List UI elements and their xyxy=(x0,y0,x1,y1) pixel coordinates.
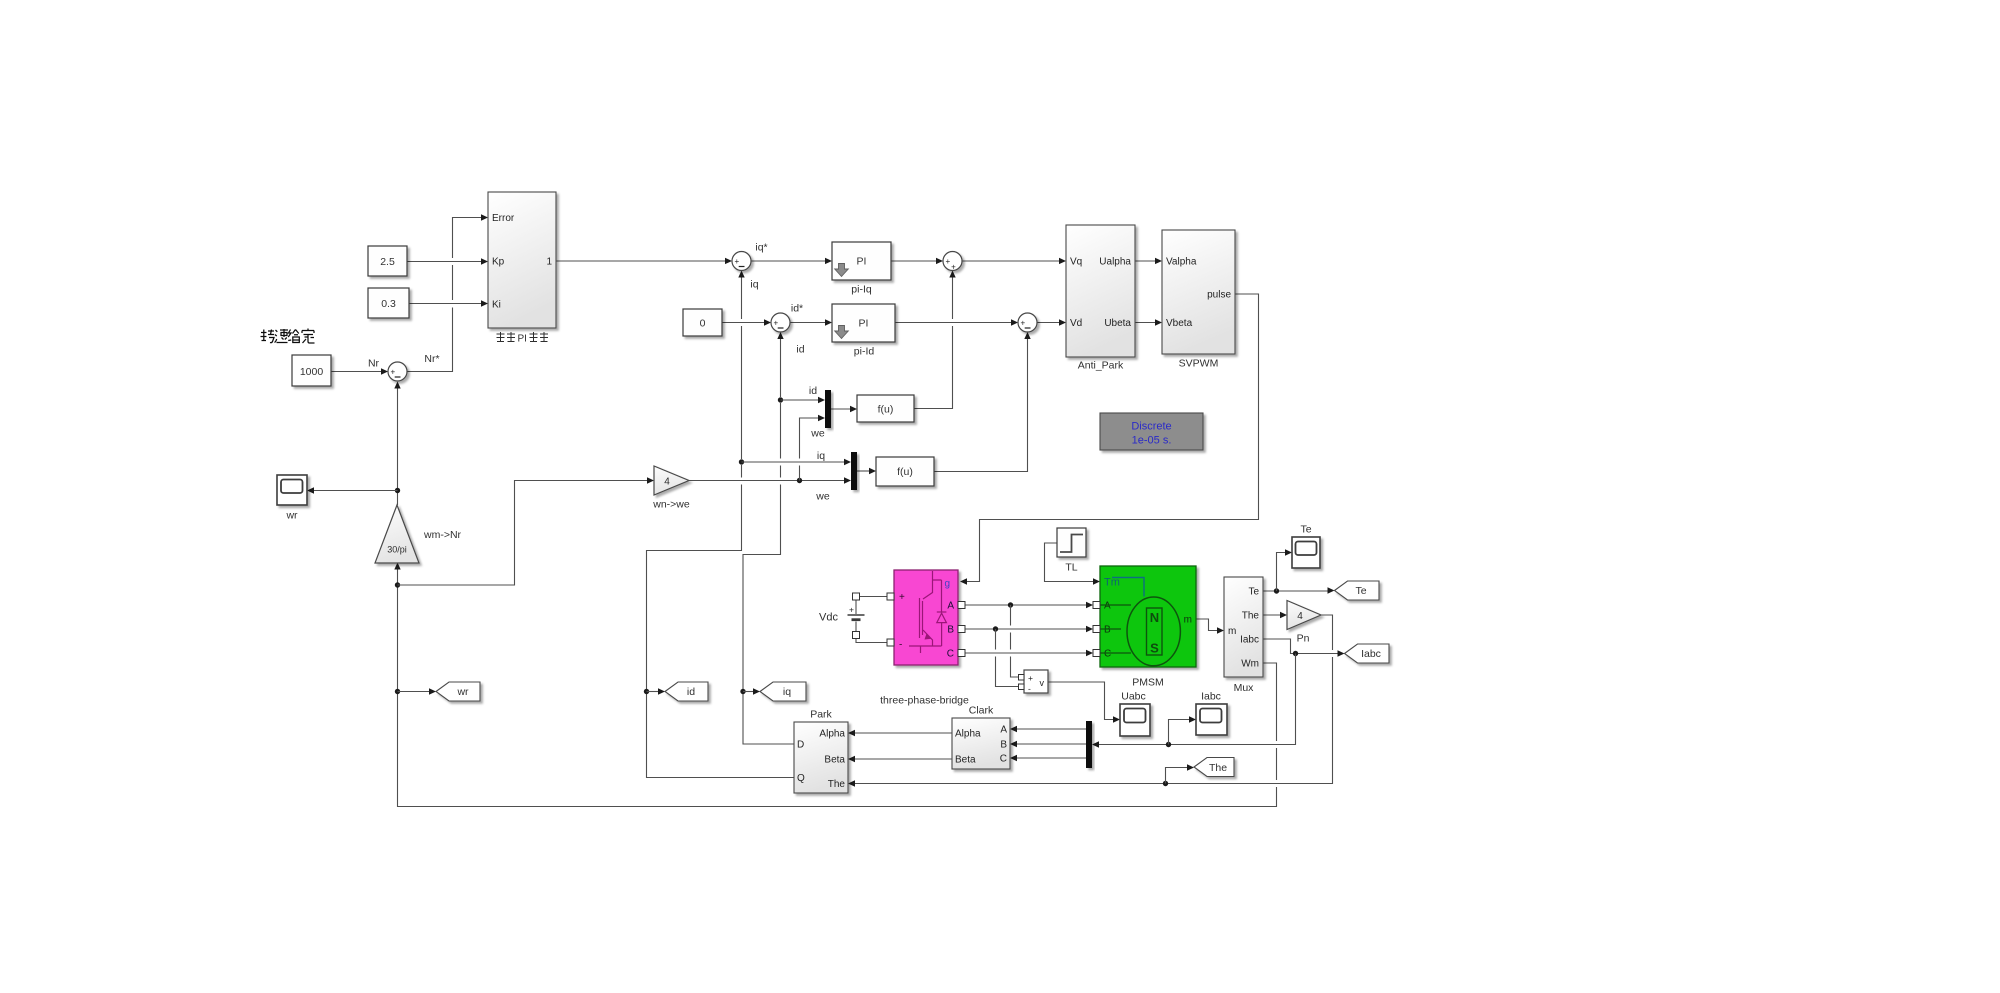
svg-text:pulse: pulse xyxy=(1207,290,1231,301)
wire demux out B to Clark B xyxy=(1010,741,1086,747)
pi-Iq PI controller block xyxy=(832,242,891,280)
svg-text:f(u): f(u) xyxy=(897,466,913,478)
svg-text:D: D xyxy=(797,740,804,751)
wire constant 2.5 to Kp xyxy=(407,258,488,264)
svg-text:+: + xyxy=(1020,318,1025,327)
junction voltage measurement minus xyxy=(993,626,998,631)
junction Iabc down branch xyxy=(1293,651,1298,656)
wire v output to Uabc scope xyxy=(1048,682,1120,723)
wire B phase down to voltage measurement minus xyxy=(996,629,1019,687)
svg-text:Te: Te xyxy=(1355,585,1366,597)
label fuzzy PI module chinese xyxy=(497,332,516,342)
svg-text:C: C xyxy=(1000,754,1007,765)
powergui Discrete block xyxy=(1100,413,1203,450)
svg-text:wm->Nr: wm->Nr xyxy=(423,529,462,541)
label Nr xyxy=(368,358,380,370)
svg-text:Nr: Nr xyxy=(368,358,380,370)
junction Iabc scope branch xyxy=(1166,742,1171,747)
wire net iq : Park Q up to iq sum minus input xyxy=(647,271,795,778)
voltage measurement block xyxy=(1024,670,1048,694)
svg-text:iq*: iq* xyxy=(755,242,767,254)
svg-text:PI: PI xyxy=(518,334,527,345)
goto tag Te xyxy=(1335,581,1380,600)
svg-text:The: The xyxy=(1209,762,1227,774)
demux black bar xyxy=(1086,721,1092,768)
svg-text:PMSM: PMSM xyxy=(1132,677,1164,689)
label Park xyxy=(810,709,832,721)
constant block 1000 xyxy=(292,355,331,386)
wire PMSM m to Mux input xyxy=(1196,619,1224,634)
label TL xyxy=(1065,562,1077,574)
svg-text:iq: iq xyxy=(750,279,758,291)
label we at mux2 xyxy=(815,491,830,503)
junction wr scope branch xyxy=(395,488,400,493)
svg-text:Uabc: Uabc xyxy=(1121,691,1146,703)
goto tag Iabc xyxy=(1345,644,1390,663)
wire Mux The output to Pn gain xyxy=(1263,612,1287,618)
wire A phase down to voltage measurement plus xyxy=(1011,605,1019,677)
three-phase-bridge block xyxy=(894,570,958,665)
port pad PMSM C xyxy=(1093,650,1100,657)
svg-text:id*: id* xyxy=(791,303,803,315)
svg-text:wr: wr xyxy=(456,686,469,698)
sum junction Vd feedforward xyxy=(1018,313,1037,332)
svg-text:id: id xyxy=(796,344,804,356)
svg-text:Iabc: Iabc xyxy=(1201,691,1221,703)
svg-text:we: we xyxy=(815,491,830,503)
svg-text:+: + xyxy=(951,262,956,271)
gain Pn triangle xyxy=(1287,601,1321,630)
wire Ualpha to Valpha xyxy=(1135,258,1162,264)
scope Uabc xyxy=(1120,704,1150,736)
svg-text:id: id xyxy=(687,686,695,698)
svg-text:Kp: Kp xyxy=(492,257,505,268)
svg-text:Valpha: Valpha xyxy=(1166,257,1197,268)
svg-text:id: id xyxy=(809,385,817,397)
svg-text:f(u): f(u) xyxy=(878,404,894,416)
port pad voltage measurement plus xyxy=(1019,675,1025,681)
port pad bridge C xyxy=(958,650,965,657)
label three-phase-bridge xyxy=(880,695,969,707)
svg-text:Beta: Beta xyxy=(955,755,976,766)
wire gain wn-we output we to mux2 input xyxy=(689,477,851,483)
wire pi-Iq to sum3 xyxy=(891,258,943,264)
svg-text:Alpha: Alpha xyxy=(955,729,981,740)
label iq* xyxy=(755,242,767,254)
svg-text:1e-05 s.: 1e-05 s. xyxy=(1132,435,1172,447)
gain 30/pi triangle xyxy=(375,505,419,563)
svg-text:Vbeta: Vbeta xyxy=(1166,318,1193,329)
wire id branch to mux1 input xyxy=(781,397,826,403)
svg-text:A: A xyxy=(947,601,954,612)
wire Iabc branch down to demux xyxy=(1092,654,1296,748)
label id* xyxy=(791,303,803,315)
label pi-Id xyxy=(854,346,875,358)
label Te scope xyxy=(1300,524,1311,536)
svg-text:three-phase-bridge: three-phase-bridge xyxy=(880,695,969,707)
goto tag wr xyxy=(436,682,480,701)
svg-text:PI: PI xyxy=(857,256,867,268)
wire battery plus to bridge plus xyxy=(860,596,887,598)
port pad battery plus xyxy=(853,593,860,600)
wire Clark Alpha to Park Alpha xyxy=(848,730,952,736)
svg-text:pi-Id: pi-Id xyxy=(854,346,875,358)
wire sum3 to Anti_Park Vq xyxy=(962,258,1066,264)
scope Te xyxy=(1292,537,1320,568)
svg-text:B: B xyxy=(1000,740,1007,751)
wire constant 0 to id sum xyxy=(722,319,771,325)
wire battery minus to bridge minus xyxy=(856,638,887,643)
wire branch up to Iabc scope xyxy=(1169,716,1197,744)
wire net id : Park D up to id sum minus input xyxy=(743,332,794,744)
svg-text:Clark: Clark xyxy=(969,705,994,717)
svg-text:Te: Te xyxy=(1248,587,1259,598)
svg-text:+: + xyxy=(945,257,950,266)
wire gain 30/pi output to speed sum minus input xyxy=(394,382,400,506)
svg-text:Iabc: Iabc xyxy=(1240,635,1259,646)
label we at mux1 xyxy=(810,428,825,440)
port pad PMSM A xyxy=(1093,602,1100,609)
wire bridge A to PMSM A xyxy=(965,602,1093,608)
subsystem SVPWM block xyxy=(1162,230,1235,354)
svg-text:C: C xyxy=(1104,649,1111,660)
svg-text:The: The xyxy=(1242,611,1260,622)
subsystem Anti_Park block xyxy=(1066,225,1135,357)
junction voltage measurement plus xyxy=(1008,602,1013,607)
wire fuzzy PI output to iq sum xyxy=(556,258,732,264)
junction id tag branch xyxy=(644,689,649,694)
svg-text:m: m xyxy=(1184,615,1192,626)
label Vdc xyxy=(819,612,838,624)
wire id sum to pi-Id xyxy=(790,319,832,325)
wire iq* sum to pi-Iq xyxy=(751,258,832,264)
label id below sum xyxy=(796,344,804,356)
label pi-Iq xyxy=(851,284,872,296)
svg-text:pi-Iq: pi-Iq xyxy=(851,284,872,296)
port pad bridge plus xyxy=(887,593,894,600)
label wm-Nr xyxy=(423,529,462,541)
svg-text:Wm: Wm xyxy=(1241,659,1259,670)
svg-text:1000: 1000 xyxy=(300,366,324,378)
svg-text:B: B xyxy=(1104,625,1111,636)
wire branch to wr scope xyxy=(307,487,398,493)
label iq below sum xyxy=(750,279,758,291)
sum junction id xyxy=(771,313,790,332)
svg-text:Q: Q xyxy=(797,773,805,784)
svg-text:+: + xyxy=(849,605,854,615)
svg-text:Discrete: Discrete xyxy=(1131,421,1171,433)
svg-text:iq: iq xyxy=(783,686,791,698)
svg-text:N: N xyxy=(1150,610,1159,625)
wire demux out C to Clark C xyxy=(1010,755,1086,761)
label Clark xyxy=(969,705,994,717)
label id at mux1 xyxy=(809,385,817,397)
wire f(u)1 to sum3 plus input xyxy=(914,271,956,409)
svg-text:Vd: Vd xyxy=(1070,318,1082,329)
svg-text:TL: TL xyxy=(1065,562,1077,574)
label Anti_Park xyxy=(1078,360,1124,372)
wire mux1 to f(u)1 xyxy=(831,406,857,412)
wire Clark Beta to Park Beta xyxy=(848,756,952,762)
svg-text:Ubeta: Ubeta xyxy=(1104,318,1131,329)
label PMSM xyxy=(1132,677,1164,689)
function block f(u) second xyxy=(876,457,934,486)
scope wr xyxy=(277,475,307,505)
svg-text:Nr*: Nr* xyxy=(424,353,439,365)
svg-text:C: C xyxy=(947,649,954,660)
svg-text:Error: Error xyxy=(492,213,515,224)
junction we branch to mux1 xyxy=(797,478,802,483)
wire Mux Wm down along bottom and up to gain 30/pi input xyxy=(394,563,1276,807)
subsystem fuzzy PI block xyxy=(488,192,556,328)
svg-text:SVPWM: SVPWM xyxy=(1179,358,1219,370)
wire branch to id goto tag xyxy=(647,688,666,694)
svg-text:Park: Park xyxy=(810,709,832,721)
wire TL step to PMSM Tm xyxy=(1045,543,1101,585)
svg-text:iq: iq xyxy=(817,450,825,462)
svg-text:Iabc: Iabc xyxy=(1361,648,1381,660)
svg-text:g: g xyxy=(944,579,950,590)
svg-text:Anti_Park: Anti_Park xyxy=(1078,360,1124,372)
wire constant 0.3 to Ki xyxy=(409,300,488,306)
label Uabc xyxy=(1121,691,1146,703)
mux2 black bar xyxy=(851,452,857,490)
wire iq branch to mux2 input xyxy=(742,459,852,465)
scope Iabc xyxy=(1196,704,1227,735)
wire we branch to mux1 lower input xyxy=(800,415,826,481)
wire demux out A to Clark A xyxy=(1010,726,1086,732)
label SVPWM xyxy=(1179,358,1219,370)
svg-text:m: m xyxy=(1228,626,1236,637)
wire SVPWM pulse to bridge gate g xyxy=(960,294,1259,585)
label Pn xyxy=(1297,633,1310,645)
gain wn-we triangle xyxy=(654,466,689,495)
junction we gain branch xyxy=(395,582,400,587)
bus selector Mux block xyxy=(1224,577,1263,677)
svg-text:Mux: Mux xyxy=(1234,682,1255,694)
PMSM motor block xyxy=(1100,566,1196,667)
sum junction speed (Nr) xyxy=(388,362,407,381)
svg-text:Vdc: Vdc xyxy=(819,612,838,624)
junction The tag branch xyxy=(1163,781,1168,786)
label Iabc scope xyxy=(1201,691,1221,703)
label Mux xyxy=(1234,682,1255,694)
svg-text:-: - xyxy=(899,640,902,651)
junction Te scope branch xyxy=(1274,588,1279,593)
svg-text:4: 4 xyxy=(664,477,670,488)
port pad voltage measurement minus xyxy=(1019,684,1025,690)
wire pi-Id to sum4 xyxy=(895,319,1018,325)
port pad bridge B xyxy=(958,626,965,633)
wire branch up to The tag xyxy=(1166,764,1195,783)
wire sum4 to Anti_Park Vd xyxy=(1037,319,1066,325)
wire bridge C to PMSM C xyxy=(965,650,1093,656)
wire mux2 to f(u)2 xyxy=(857,468,876,474)
wire branch up to Te scope xyxy=(1277,549,1293,591)
svg-text:wr: wr xyxy=(285,510,298,522)
goto tag iq xyxy=(760,682,806,701)
wire Pn gain output down to Park The input xyxy=(848,615,1333,787)
mux1 black bar xyxy=(825,390,831,428)
svg-text:B: B xyxy=(947,625,954,636)
battery Vdc symbol xyxy=(848,600,865,633)
svg-text:wn->we: wn->we xyxy=(652,499,690,511)
svg-text:Tm: Tm xyxy=(1104,577,1120,589)
port pad bridge A xyxy=(958,602,965,609)
svg-text:A: A xyxy=(1104,601,1111,612)
label Nr* xyxy=(424,353,439,365)
goto tag id xyxy=(665,682,708,701)
label wr scope xyxy=(285,510,298,522)
junction wr tag branch xyxy=(395,689,400,694)
svg-text:Beta: Beta xyxy=(824,755,845,766)
junction iq tag branch xyxy=(740,689,745,694)
svg-text:we: we xyxy=(810,428,825,440)
svg-text:4: 4 xyxy=(1297,611,1303,622)
port pad PMSM B xyxy=(1093,626,1100,633)
sum junction iq xyxy=(732,252,751,271)
label iq at mux2 xyxy=(817,450,825,462)
svg-text:0.3: 0.3 xyxy=(381,298,396,310)
svg-text:1: 1 xyxy=(546,257,552,268)
wire branch to wr goto tag xyxy=(398,688,437,694)
svg-text:+: + xyxy=(899,592,905,603)
svg-text:+: + xyxy=(734,257,739,266)
svg-text:Te: Te xyxy=(1300,524,1311,536)
junction id to mux1 xyxy=(778,397,783,402)
svg-text:+: + xyxy=(390,367,395,376)
pi-Id PI controller block xyxy=(832,304,895,342)
svg-text:30/pi: 30/pi xyxy=(387,545,407,555)
port pad battery minus xyxy=(853,632,860,639)
svg-text:+: + xyxy=(1028,673,1033,683)
svg-text:v: v xyxy=(1040,678,1045,688)
svg-text:PI: PI xyxy=(859,318,869,330)
label speed reference chinese xyxy=(261,329,315,344)
step block TL xyxy=(1057,528,1086,557)
wire Mux Te output to Te tag xyxy=(1263,587,1335,593)
constant block 2.5 xyxy=(368,246,407,276)
svg-text:Vq: Vq xyxy=(1070,257,1082,268)
wire 1000 to speed sum xyxy=(331,368,388,374)
svg-text:+: + xyxy=(773,318,778,327)
wire branch to iq goto tag xyxy=(743,688,760,694)
wire speed sum output Nr* up to Error input xyxy=(407,214,488,371)
svg-text:0: 0 xyxy=(700,318,706,330)
svg-text:The: The xyxy=(828,779,846,790)
svg-text:Ki: Ki xyxy=(492,300,501,311)
subsystem Clark block xyxy=(952,718,1010,769)
label wn-we xyxy=(652,499,690,511)
constant block 0.3 xyxy=(368,288,409,318)
wire f(u)2 to sum4 minus input xyxy=(934,332,1031,472)
svg-text:-: - xyxy=(1028,684,1031,694)
wire Mux Iabc output to Iabc tag xyxy=(1263,639,1345,657)
sum junction Vq feedforward xyxy=(943,252,962,272)
svg-text:Alpha: Alpha xyxy=(819,729,845,740)
constant block 0 xyxy=(683,309,722,336)
svg-text:2.5: 2.5 xyxy=(380,256,395,268)
svg-text:Ualpha: Ualpha xyxy=(1099,257,1131,268)
goto tag The xyxy=(1194,758,1234,777)
function block f(u) first xyxy=(857,395,914,422)
wire bridge B to PMSM B xyxy=(965,626,1093,632)
port pad bridge minus xyxy=(887,639,894,646)
wire branch to gain wn-we input xyxy=(398,477,655,585)
subsystem Park block xyxy=(794,722,848,793)
svg-text:S: S xyxy=(1150,641,1159,656)
wire Ubeta to Vbeta xyxy=(1135,319,1162,325)
junction iq to mux2 xyxy=(739,459,744,464)
svg-text:A: A xyxy=(1000,725,1007,736)
svg-text:Pn: Pn xyxy=(1297,633,1310,645)
